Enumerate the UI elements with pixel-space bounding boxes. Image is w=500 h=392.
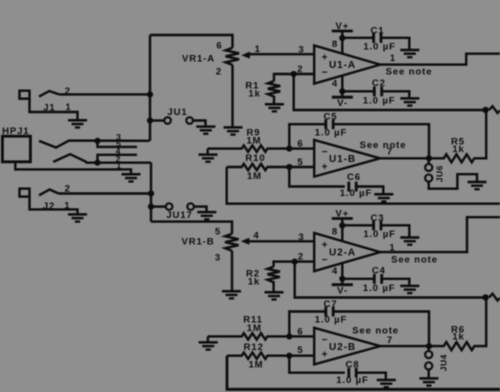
node V- junction U2-A	[339, 276, 345, 282]
svg-text:1.0 µF: 1.0 µF	[363, 42, 396, 53]
wire C7 feedback top	[289, 312, 325, 337]
node U1-A -in junction	[291, 71, 297, 77]
capacitor C1	[374, 33, 410, 49]
jumper JU17	[151, 203, 207, 211]
wire +in down to C6	[289, 167, 345, 187]
wire U1-A -in	[294, 73, 315, 75]
svg-text:+: +	[322, 53, 329, 64]
svg-text:7: 7	[387, 335, 393, 346]
svg-text:JU6: JU6	[435, 165, 445, 182]
wire HPJ1 pin 5 stub	[98, 141, 138, 147]
svg-text:5: 5	[297, 345, 303, 356]
node B JU17 junction	[148, 204, 154, 210]
svg-text:J2: J2	[43, 201, 55, 212]
wire U1-A output	[380, 54, 500, 65]
node A J1 junction	[147, 91, 153, 97]
ground (C8)	[377, 380, 396, 387]
svg-text:U1-A: U1-A	[329, 60, 356, 71]
svg-text:1: 1	[389, 242, 395, 253]
svg-text:1k: 1k	[452, 332, 464, 343]
svg-text:4: 4	[332, 79, 338, 90]
op-amp U2-B	[314, 328, 380, 365]
V- power symbol (U1-A pin 4)	[332, 76, 353, 98]
node HPJ1 pin3/5 junction	[94, 138, 100, 144]
wire U2-B output	[380, 345, 429, 347]
svg-text:U2-A: U2-A	[329, 248, 356, 259]
resistor R5	[429, 110, 486, 162]
svg-text:1.0 µF: 1.0 µF	[315, 315, 348, 326]
svg-text:4: 4	[332, 266, 338, 277]
svg-text:HPJ1: HPJ1	[2, 126, 29, 137]
wire U2-A output	[380, 217, 500, 252]
VR1-B wiper arrow	[241, 238, 250, 245]
svg-text:−: −	[322, 147, 329, 158]
ground (C1)	[400, 50, 419, 57]
wire HPJ1 pin 4 stub	[98, 155, 138, 163]
svg-text:8: 8	[332, 39, 338, 50]
svg-text:1: 1	[65, 102, 71, 113]
potentiometer VR1-A	[226, 48, 239, 127]
svg-text:2: 2	[216, 67, 222, 78]
ground (C2)	[400, 98, 419, 105]
wire -in to R1	[274, 74, 294, 81]
svg-text:4: 4	[253, 231, 259, 242]
op-amp U1-A	[314, 46, 380, 84]
svg-text:1k: 1k	[452, 144, 464, 155]
V+ power symbol (U1-A pin 8)	[332, 31, 353, 54]
svg-text:C3: C3	[371, 213, 385, 224]
node U2-B +in junction	[286, 353, 292, 359]
node V+ junction	[339, 35, 345, 41]
capacitor C5	[326, 119, 429, 158]
ground (JU1)	[196, 127, 215, 134]
svg-text:1: 1	[116, 161, 121, 171]
node U1-B output junction	[426, 155, 432, 161]
ground (VR1-B pin 3)	[222, 291, 241, 298]
svg-text:−: −	[322, 335, 329, 346]
svg-text:3: 3	[298, 45, 304, 56]
wire U2-A -in	[295, 260, 315, 262]
wire VR1-A wiper to U1-A +in	[249, 53, 315, 55]
node B J2 junction	[148, 190, 154, 196]
ground (VR1-A pin 2)	[224, 127, 243, 134]
node U2-B -in junction	[286, 333, 292, 339]
wire -in node down to R6 bus	[295, 262, 486, 298]
node U2-A -in junction	[292, 259, 298, 265]
ground (R9)	[199, 155, 218, 162]
svg-text:JU1: JU1	[167, 107, 187, 118]
wire node B to VR1-B top	[151, 222, 232, 234]
ground (JU17)	[197, 212, 216, 219]
wire to U1-B -in	[289, 147, 314, 149]
ground (JU6)	[468, 182, 487, 189]
svg-text:C1: C1	[371, 26, 385, 37]
node U1-B +in junction	[286, 164, 292, 170]
svg-text:V+: V+	[335, 21, 349, 32]
wire V+ to C3	[342, 224, 373, 226]
svg-text:J1: J1	[43, 102, 55, 113]
ground (C4)	[400, 286, 419, 293]
svg-text:U1-B: U1-B	[329, 154, 356, 165]
connector HPJ1	[2, 136, 131, 173]
op-amp U1-B	[314, 140, 380, 177]
svg-text:8: 8	[332, 226, 338, 237]
capacitor C8	[349, 368, 386, 379]
svg-text:3: 3	[215, 253, 221, 264]
node A JU1 junction	[147, 117, 153, 123]
svg-text:1: 1	[64, 201, 70, 212]
svg-text:1M: 1M	[247, 171, 262, 182]
svg-text:R12: R12	[244, 342, 264, 353]
svg-text:C7: C7	[324, 299, 338, 310]
resistor R10	[227, 164, 290, 170]
resistor R2	[267, 267, 280, 292]
ground (C3)	[400, 238, 419, 245]
svg-text:−: −	[322, 68, 329, 79]
wire +in down to C8	[289, 356, 345, 373]
ground (JU4)	[419, 378, 438, 385]
svg-text:−: −	[322, 255, 329, 266]
wire to U1-B +in	[289, 166, 314, 168]
node HPJ1 pin2/4 junction	[94, 160, 100, 166]
wire -in to R2	[274, 262, 295, 267]
svg-text:1.0 µF: 1.0 µF	[363, 229, 396, 240]
HPJ1 ring contact arm (pins 2/4)	[53, 154, 151, 163]
wire R10 left to long bus	[227, 167, 500, 204]
capacitor C6	[349, 182, 384, 194]
svg-text:V-: V-	[337, 286, 348, 297]
node R5 right / bus junction	[482, 107, 488, 113]
jumper JU6	[425, 158, 477, 188]
wire R12 left to bottom bus	[227, 356, 500, 390]
svg-text:C2: C2	[372, 78, 386, 89]
svg-text:1M: 1M	[247, 135, 262, 146]
svg-text:V-: V-	[337, 98, 348, 109]
resistor R1	[268, 81, 281, 103]
svg-text:1: 1	[390, 53, 396, 64]
wire -in node down to R5 bus	[294, 74, 486, 110]
svg-text:1M: 1M	[247, 323, 262, 334]
jumper JU1	[150, 117, 206, 126]
capacitor C4	[374, 274, 409, 285]
V- power symbol (U2-A pin 4)	[332, 263, 353, 285]
capacitor C3	[374, 221, 410, 237]
wire to U2-B -in	[289, 335, 314, 337]
svg-text:See note: See note	[352, 326, 399, 337]
svg-text:+: +	[322, 162, 329, 173]
ground (C6)	[374, 194, 393, 201]
wire stub resistor at right edge (y=297.5)	[489, 294, 500, 301]
resistor R12	[227, 353, 289, 359]
wire node A vertical (J1/JU1/HPJ1-3 net)	[149, 35, 151, 141]
node R6 right / bus junction	[482, 294, 488, 300]
wire U1-B output	[380, 157, 429, 159]
wire VR1-B wiper to U2-A +in	[248, 240, 314, 242]
wire V+ to C1	[342, 37, 373, 39]
ground (HPJ1 pin 1)	[122, 174, 141, 181]
svg-text:C6: C6	[347, 172, 361, 183]
VR1-A wiper arrow	[241, 52, 250, 59]
svg-text:1.0 µF: 1.0 µF	[336, 375, 369, 386]
connector J2	[20, 189, 78, 214]
node U1-B -in junction	[286, 146, 292, 152]
svg-text:See note: See note	[386, 67, 433, 78]
wire node A to VR1-A top	[150, 35, 233, 48]
resistor R9	[208, 145, 290, 153]
resistor R11	[208, 333, 289, 341]
wire C5 feedback top	[289, 124, 325, 148]
svg-text:JU4: JU4	[439, 354, 449, 371]
svg-text:See note: See note	[360, 140, 407, 151]
svg-text:1M: 1M	[249, 360, 264, 371]
svg-text:+: +	[322, 350, 329, 361]
connector J1	[20, 91, 78, 120]
svg-text:V+: V+	[335, 209, 349, 220]
ground (R11)	[199, 342, 218, 349]
svg-text:VR1-A: VR1-A	[182, 54, 215, 65]
wire J1 pin2 to node A	[59, 93, 150, 95]
ground (J1 sleeve)	[68, 120, 87, 127]
wire V- to C4	[342, 278, 374, 280]
ground (R1)	[265, 104, 284, 111]
svg-text:VR1-B: VR1-B	[181, 237, 214, 248]
wire stub resistor at right edge (y=110)	[489, 106, 500, 113]
svg-text:C8: C8	[346, 359, 360, 370]
svg-text:1.0 µF: 1.0 µF	[363, 283, 396, 294]
svg-text:U2-B: U2-B	[329, 342, 356, 353]
svg-text:See note: See note	[391, 255, 438, 266]
jumper JU4	[425, 346, 432, 377]
node V+ junction U2-A	[339, 222, 345, 228]
V+ power symbol (U2-A pin 8)	[332, 219, 353, 242]
potentiometer VR1-B	[225, 234, 238, 291]
svg-text:3: 3	[298, 232, 304, 243]
ground (J2 sleeve)	[68, 214, 87, 221]
svg-text:6: 6	[216, 41, 222, 52]
capacitor C2	[374, 87, 409, 98]
svg-text:C5: C5	[324, 112, 338, 123]
svg-text:1k: 1k	[248, 88, 260, 99]
svg-text:1.0 µF: 1.0 µF	[363, 95, 396, 106]
svg-text:R10: R10	[245, 153, 265, 164]
op-amp U2-A	[314, 233, 380, 271]
wire J2 pin2 to node B	[58, 192, 151, 194]
wire node B vertical (J2/JU17/HPJ1-2 net)	[150, 163, 152, 222]
HPJ1 tip contact arm (pins 3/5)	[39, 141, 150, 148]
svg-text:5: 5	[215, 227, 221, 238]
svg-text:+: +	[322, 240, 329, 251]
svg-text:C4: C4	[372, 266, 386, 277]
node U2-B output junction	[426, 343, 432, 349]
ground (R2)	[265, 292, 284, 299]
wire V- to C2	[342, 90, 374, 92]
svg-text:1.0 µF: 1.0 µF	[340, 188, 373, 199]
svg-text:1.0 µF: 1.0 µF	[315, 127, 348, 138]
svg-text:JU17: JU17	[166, 210, 192, 221]
svg-text:1k: 1k	[248, 277, 260, 288]
capacitor C7	[326, 307, 429, 346]
node V- junction	[339, 88, 345, 94]
wire to U2-B +in	[289, 355, 314, 357]
resistor R6	[429, 298, 486, 351]
svg-text:1: 1	[255, 44, 261, 55]
